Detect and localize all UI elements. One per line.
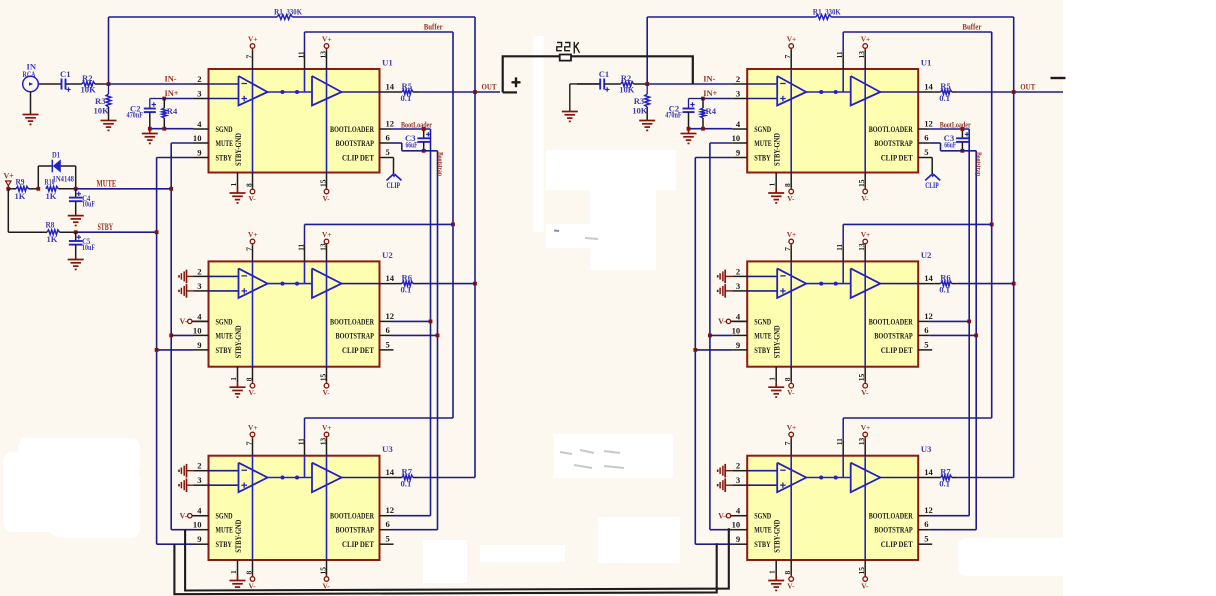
svg-text:15: 15 xyxy=(857,567,866,575)
V+ pin 13 of U1 xyxy=(319,35,332,173)
svg-text:13: 13 xyxy=(857,243,866,251)
net Buffer wire (left) xyxy=(305,22,455,419)
svg-text:0.1: 0.1 xyxy=(401,285,412,295)
svg-text:10K: 10K xyxy=(94,106,110,116)
V+ rail pin 7 of U1 xyxy=(245,35,258,173)
net Bootstrap wire (left) xyxy=(391,143,445,530)
svg-text:U1: U1 xyxy=(382,58,393,68)
svg-text:6: 6 xyxy=(386,133,391,143)
svg-text:10: 10 xyxy=(193,520,202,530)
svg-text:BOOTSTRAP: BOOTSTRAP xyxy=(874,138,913,148)
pin names of U1 xyxy=(216,124,375,166)
svg-text:12: 12 xyxy=(924,119,933,129)
svg-text:IN+: IN+ xyxy=(703,89,717,98)
pin stubs of U3 xyxy=(193,461,396,545)
svg-text:SGND: SGND xyxy=(216,316,233,326)
wire SGND to pin 4 (right) xyxy=(687,127,733,131)
svg-text:1: 1 xyxy=(768,377,777,381)
svg-text:V-: V- xyxy=(249,581,257,590)
svg-text:0.1: 0.1 xyxy=(939,285,950,295)
V- pin 8 of U3 xyxy=(783,560,795,590)
pin stubs of U3 xyxy=(732,461,935,545)
pin 11 entry of U1 xyxy=(835,32,844,92)
svg-text:V-: V- xyxy=(249,388,257,397)
svg-text:MUTE: MUTE xyxy=(754,525,772,535)
amplifier A of U1 xyxy=(209,76,268,106)
V- pin 15 of U3 xyxy=(319,560,331,590)
svg-text:15: 15 xyxy=(319,179,328,187)
amplifier B (buffer) of U1 xyxy=(312,76,342,106)
svg-text:V+: V+ xyxy=(322,35,332,44)
svg-text:BOOTSTRAP: BOOTSTRAP xyxy=(336,525,375,535)
svg-text:14: 14 xyxy=(386,82,395,92)
pin names of U3 xyxy=(754,511,913,553)
svg-text:0.1: 0.1 xyxy=(401,93,412,103)
svg-text:STBY: STBY xyxy=(754,539,771,549)
svg-text:CLIP DET: CLIP DET xyxy=(342,345,374,355)
svg-text:D1: D1 xyxy=(52,150,60,160)
input ac-ground symbol pin3 (left) xyxy=(179,478,194,492)
svg-text:Buffer: Buffer xyxy=(962,22,981,32)
svg-text:SGND: SGND xyxy=(754,511,771,521)
svg-text:CLIP DET: CLIP DET xyxy=(881,153,913,163)
V+ pin 13 of U2 xyxy=(857,230,870,367)
ground below R3 (left) xyxy=(101,121,117,131)
svg-text:V+: V+ xyxy=(322,423,332,432)
V+ rail pin 7 of U1 xyxy=(783,35,796,173)
svg-text:R6: R6 xyxy=(940,273,951,283)
svg-text:9: 9 xyxy=(736,340,740,350)
wire between amplifiers of U2 xyxy=(806,282,851,286)
svg-text:6: 6 xyxy=(386,325,391,335)
wire IN- to pin 2 (right) xyxy=(647,75,732,85)
wire IN+ to pin 3 (right) xyxy=(701,89,732,100)
svg-text:CLIP DET: CLIP DET xyxy=(881,539,913,549)
svg-text:8: 8 xyxy=(783,571,792,575)
svg-text:STBY: STBY xyxy=(216,539,233,549)
V- pin 15 of U1 xyxy=(857,173,869,203)
svg-text:6: 6 xyxy=(924,519,929,529)
svg-text:6: 6 xyxy=(924,133,929,143)
V+ pin 13 of U3 xyxy=(319,423,332,560)
wire U2 pin6 to Bootstrap (right) xyxy=(930,334,977,336)
svg-text:10uF: 10uF xyxy=(82,242,95,252)
wire U3 pin11 to Buffer (right) xyxy=(843,417,992,419)
input ac-ground symbol pin3 (right) xyxy=(718,478,733,492)
net MUTE wire xyxy=(74,179,173,191)
capacitor C3 66uF (right) xyxy=(944,127,970,153)
svg-text:V+: V+ xyxy=(787,35,797,44)
svg-text:12: 12 xyxy=(386,505,395,515)
svg-text:SGND: SGND xyxy=(216,124,233,134)
svg-text:CLIP: CLIP xyxy=(387,180,401,190)
input ac-ground symbol pin3 (right) xyxy=(718,284,733,298)
V+ rail pin 7 of U2 xyxy=(245,230,258,367)
V+ rail pin 7 of U3 xyxy=(783,423,796,560)
svg-text:R1: R1 xyxy=(813,7,822,17)
pin 1 ground of U1 xyxy=(768,173,785,203)
svg-text:8: 8 xyxy=(245,183,254,187)
resistor R6 0.1 (right) xyxy=(935,273,1014,295)
output wire inside U3 xyxy=(880,477,918,479)
svg-text:5: 5 xyxy=(386,147,390,157)
amplifier A of U3 xyxy=(209,463,268,493)
op-amp U1 xyxy=(209,58,393,173)
svg-text:66uF: 66uF xyxy=(944,140,956,150)
hand-drawn minus sign at right OUT xyxy=(1051,77,1066,79)
V- terminal pin 4 (left) xyxy=(179,317,208,326)
pin 11 entry of U2 xyxy=(297,224,306,283)
svg-text:1N4148: 1N4148 xyxy=(53,174,75,184)
amplifier A of U3 xyxy=(747,463,806,493)
svg-text:1: 1 xyxy=(768,570,777,574)
capacitor C4 10uF xyxy=(69,189,95,216)
resistor R5 0.1 (left) xyxy=(396,81,419,103)
net BootLoader wire (right) xyxy=(930,120,971,515)
net BootLoader wire (left) xyxy=(391,120,432,515)
amplifier B (buffer) of U1 xyxy=(851,76,881,106)
svg-text:4: 4 xyxy=(197,506,202,516)
amplifier A of U2 xyxy=(747,268,806,298)
V- pin 15 of U2 xyxy=(319,367,331,397)
op-amp U1 xyxy=(747,58,931,173)
svg-text:CLIP DET: CLIP DET xyxy=(881,345,913,355)
net STBY wire xyxy=(74,222,159,234)
svg-text:STBY: STBY xyxy=(754,153,771,163)
hand-drawn label 22K xyxy=(557,42,580,54)
svg-text:13: 13 xyxy=(857,437,866,445)
pin stubs of U1 xyxy=(193,74,396,158)
op-amp U2 xyxy=(209,250,394,367)
resistor R7 0.1 (left) xyxy=(396,467,475,489)
svg-text:R9: R9 xyxy=(16,177,25,187)
svg-text:10K: 10K xyxy=(632,106,648,116)
svg-text:66uF: 66uF xyxy=(406,140,418,150)
svg-text:330K: 330K xyxy=(825,7,841,17)
svg-text:8: 8 xyxy=(245,377,254,381)
pin 1 ground of U2 xyxy=(768,367,785,397)
svg-text:11: 11 xyxy=(835,438,844,445)
svg-text:V-: V- xyxy=(249,194,257,203)
svg-text:11: 11 xyxy=(835,244,844,251)
V+ rail pin 7 of U3 xyxy=(245,423,258,560)
net MUTE bus (right) xyxy=(708,143,732,530)
svg-text:470nF: 470nF xyxy=(127,110,144,120)
svg-text:BOOTSTRAP: BOOTSTRAP xyxy=(336,138,375,148)
svg-text:BOOTSTRAP: BOOTSTRAP xyxy=(874,330,913,340)
svg-text:SGND: SGND xyxy=(754,316,771,326)
svg-text:V-: V- xyxy=(179,317,187,326)
pin 11 entry of U2 xyxy=(835,224,844,283)
pin stubs of U1 xyxy=(732,74,935,158)
svg-text:10K: 10K xyxy=(81,84,97,94)
svg-text:4: 4 xyxy=(197,119,202,129)
wire R1 left leg (right) xyxy=(646,17,648,84)
hand-drawn STBY link wire bottom xyxy=(174,543,716,594)
svg-text:330K: 330K xyxy=(287,7,303,17)
resistor R2 10K (right) xyxy=(604,73,647,94)
svg-text:15: 15 xyxy=(319,373,328,381)
wire between amplifiers of U2 xyxy=(268,282,313,286)
svg-text:BOOTLOADER: BOOTLOADER xyxy=(869,124,913,134)
capacitor C3 66uF (left) xyxy=(405,127,431,153)
svg-text:R2: R2 xyxy=(82,73,93,83)
wire OUT feedback vertical (right) xyxy=(1012,92,1016,478)
svg-text:13: 13 xyxy=(857,51,866,59)
white patch bottom middle xyxy=(423,540,565,583)
svg-text:7: 7 xyxy=(783,55,792,59)
svg-text:13: 13 xyxy=(319,437,328,445)
svg-text:10K: 10K xyxy=(619,84,635,94)
svg-text:5: 5 xyxy=(386,339,390,349)
pin 11 entry of U1 xyxy=(297,32,306,92)
svg-text:14: 14 xyxy=(386,467,395,477)
svg-text:U3: U3 xyxy=(382,444,393,454)
svg-text:V-: V- xyxy=(323,388,331,397)
capacitor C2 470nF (left) xyxy=(127,99,165,129)
pin names of U1 xyxy=(754,124,913,166)
white strip middle top xyxy=(534,36,544,232)
ground below C5 xyxy=(68,260,84,270)
svg-text:2: 2 xyxy=(197,266,201,276)
svg-text:V-: V- xyxy=(179,512,187,521)
svg-text:CLIP DET: CLIP DET xyxy=(342,153,374,163)
V- pin 8 of U2 xyxy=(783,367,795,397)
svg-text:V+: V+ xyxy=(787,423,797,432)
input ac-ground symbol pin2 (left) xyxy=(179,464,194,478)
svg-text:U2: U2 xyxy=(921,250,932,260)
V+ pin 13 of U2 xyxy=(319,230,332,367)
wire U3 pin12 to BootLoader (left) xyxy=(391,515,431,517)
V- pin 8 of U1 xyxy=(245,173,257,203)
wire U3 pin11 to Buffer (left) xyxy=(305,417,454,419)
svg-text:12: 12 xyxy=(924,505,933,515)
hand-drawn 22K coupling resistor xyxy=(503,55,693,93)
op-amp U3 xyxy=(747,444,932,560)
resistor R8 1K xyxy=(46,220,76,244)
white margin right xyxy=(1063,0,1216,596)
svg-text:8: 8 xyxy=(245,571,254,575)
white patch middle upper xyxy=(546,150,676,270)
svg-text:9: 9 xyxy=(736,534,740,544)
svg-text:IN-: IN- xyxy=(165,75,177,84)
net MUTE bus (left) xyxy=(169,143,193,530)
svg-text:10: 10 xyxy=(732,520,741,530)
svg-text:V+: V+ xyxy=(322,230,332,239)
svg-text:14: 14 xyxy=(924,467,933,477)
svg-text:OUT: OUT xyxy=(482,82,497,92)
svg-text:V-: V- xyxy=(787,581,795,590)
wire U3 pin12 to BootLoader (right) xyxy=(930,515,970,517)
svg-text:10: 10 xyxy=(732,325,741,335)
svg-text:R3: R3 xyxy=(634,96,645,106)
svg-text:10uF: 10uF xyxy=(82,199,95,209)
amplifier B (buffer) of U3 xyxy=(851,463,881,493)
svg-text:12: 12 xyxy=(386,119,395,129)
svg-text:MUTE: MUTE xyxy=(754,138,772,148)
resistor R5 0.1 (right) xyxy=(935,81,958,103)
output wire inside U1 xyxy=(342,91,380,93)
wire OUT (left) xyxy=(419,82,500,94)
svg-text:CLIP: CLIP xyxy=(925,180,939,190)
svg-text:3: 3 xyxy=(197,281,201,291)
V- pin 15 of U3 xyxy=(857,560,869,590)
svg-text:0.1: 0.1 xyxy=(401,479,412,489)
svg-text:10: 10 xyxy=(193,325,202,335)
svg-text:R2: R2 xyxy=(621,73,632,83)
svg-text:BOOTSTRAP: BOOTSTRAP xyxy=(874,525,913,535)
resistor R4 (left) xyxy=(162,99,178,129)
svg-text:5: 5 xyxy=(924,147,928,157)
input ac-ground symbol pin2 (left) xyxy=(179,270,194,284)
svg-text:BootLoader: BootLoader xyxy=(940,120,971,129)
V+ pin 13 of U3 xyxy=(857,423,870,560)
wire between amplifiers of U1 xyxy=(268,90,313,94)
diode D1 1N4148 xyxy=(36,150,75,191)
wire U2 pin12 to BootLoader (left) xyxy=(391,320,431,322)
svg-text:14: 14 xyxy=(924,82,933,92)
svg-text:V-: V- xyxy=(861,388,869,397)
svg-text:MUTE: MUTE xyxy=(216,138,234,148)
net STBY bus (left) xyxy=(155,158,194,545)
resistor R6 0.1 (left) xyxy=(396,273,475,295)
svg-text:6: 6 xyxy=(386,519,391,529)
svg-text:12: 12 xyxy=(386,311,395,321)
wire U2 pin11 to Buffer (right) xyxy=(843,223,992,225)
svg-text:MUTE: MUTE xyxy=(216,330,234,340)
output wire inside U2 xyxy=(342,283,380,285)
svg-text:6: 6 xyxy=(924,325,929,335)
svg-text:V-: V- xyxy=(861,194,869,203)
net STBY bus (right) xyxy=(693,158,732,545)
svg-text:3: 3 xyxy=(736,475,740,485)
pin names of U2 xyxy=(754,316,913,358)
capacitor C2 470nF (right) xyxy=(665,99,703,129)
svg-text:470nF: 470nF xyxy=(665,110,682,120)
white patch middle center xyxy=(554,434,1068,576)
svg-text:7: 7 xyxy=(245,247,254,251)
white patch bottom-left xyxy=(3,438,140,538)
svg-text:R5: R5 xyxy=(402,81,413,91)
svg-text:7: 7 xyxy=(245,441,254,445)
svg-text:BOOTLOADER: BOOTLOADER xyxy=(869,316,913,326)
wire U2 pin12 to BootLoader (right) xyxy=(930,320,970,322)
wire R1 left leg (left) xyxy=(108,17,110,84)
svg-text:7: 7 xyxy=(245,55,254,59)
resistor R9 1K xyxy=(6,177,38,201)
svg-text:11: 11 xyxy=(835,51,844,58)
hand-drawn MUTE link wire bottom xyxy=(185,528,729,590)
V+ pin 13 of U1 xyxy=(857,35,870,173)
svg-text:STBY: STBY xyxy=(98,222,114,232)
svg-text:5: 5 xyxy=(386,534,390,544)
svg-text:MUTE: MUTE xyxy=(97,179,117,189)
amplifier B (buffer) of U2 xyxy=(312,268,342,298)
svg-text:BOOTLOADER: BOOTLOADER xyxy=(330,511,374,521)
svg-text:7: 7 xyxy=(783,247,792,251)
input ac-ground symbol pin2 (right) xyxy=(718,270,733,284)
V- terminal pin 4 (right) xyxy=(718,317,747,326)
svg-text:1K: 1K xyxy=(15,191,26,201)
wire SGND to pin 4 (left) xyxy=(148,127,194,131)
ground below C4 xyxy=(68,216,84,226)
input ac-ground symbol pin3 (left) xyxy=(179,284,194,298)
svg-text:2: 2 xyxy=(736,266,740,276)
output wire inside U2 xyxy=(880,283,918,285)
ground below C2 (left) xyxy=(142,129,158,144)
svg-text:R10: R10 xyxy=(45,177,55,187)
svg-text:STBY: STBY xyxy=(754,345,771,355)
power V+ terminal xyxy=(4,172,15,189)
svg-text:9: 9 xyxy=(197,340,201,350)
net Bootstrap wire (right) xyxy=(930,143,984,530)
svg-text:STBY: STBY xyxy=(216,153,233,163)
svg-text:SGND: SGND xyxy=(754,124,771,134)
amplifier A of U2 xyxy=(209,268,268,298)
svg-text:R8: R8 xyxy=(46,220,56,230)
svg-text:2: 2 xyxy=(736,461,740,471)
svg-text:R4: R4 xyxy=(706,106,717,116)
svg-text:V-: V- xyxy=(787,194,795,203)
svg-text:0.1: 0.1 xyxy=(939,93,950,103)
svg-text:Bootstrap: Bootstrap xyxy=(975,152,984,176)
V- pin 8 of U3 xyxy=(245,560,257,590)
svg-text:BootLoader: BootLoader xyxy=(401,120,432,129)
svg-text:15: 15 xyxy=(857,373,866,381)
svg-text:V+: V+ xyxy=(4,172,15,181)
svg-text:V-: V- xyxy=(718,317,726,326)
pin 1 ground of U3 xyxy=(229,560,246,590)
svg-text:7: 7 xyxy=(783,441,792,445)
svg-text:BOOTLOADER: BOOTLOADER xyxy=(330,316,374,326)
svg-text:Buffer: Buffer xyxy=(424,22,443,32)
svg-text:V-: V- xyxy=(323,194,331,203)
resistor R10 1K xyxy=(45,177,76,201)
pin names of U3 xyxy=(216,511,375,553)
pin 1 ground of U3 xyxy=(768,560,785,590)
svg-text:1K: 1K xyxy=(47,234,58,244)
pin names of U2 xyxy=(216,316,375,358)
svg-text:8: 8 xyxy=(783,183,792,187)
svg-text:11: 11 xyxy=(297,244,306,251)
svg-text:CLIP DET: CLIP DET xyxy=(342,539,374,549)
amplifier B (buffer) of U3 xyxy=(312,463,342,493)
svg-text:12: 12 xyxy=(924,311,933,321)
hand-drawn plus sign at left OUT xyxy=(512,77,521,87)
svg-text:STBY-GND: STBY-GND xyxy=(234,325,243,358)
resistor R1 330K (right) xyxy=(647,7,1014,20)
wire OUT (right) xyxy=(958,82,1078,94)
wire IN- to pin 2 (left) xyxy=(109,75,194,85)
node IN- junction (left) xyxy=(107,82,111,86)
V- terminal pin 4 (right) xyxy=(718,512,747,521)
svg-text:11: 11 xyxy=(297,51,306,58)
svg-text:3: 3 xyxy=(736,89,740,99)
svg-text:C1: C1 xyxy=(60,69,71,79)
wire OUT feedback vertical (left) xyxy=(473,92,477,478)
svg-text:R7: R7 xyxy=(940,467,951,477)
ground below R3 (right) xyxy=(639,121,655,131)
capacitor C1 (left) xyxy=(38,69,70,92)
svg-text:V+: V+ xyxy=(861,35,871,44)
svg-text:STBY-GND: STBY-GND xyxy=(234,133,243,166)
wire R1 right leg to OUT (right) xyxy=(1013,17,1015,92)
resistor R4 (right) xyxy=(701,99,717,129)
svg-text:V+: V+ xyxy=(248,230,258,239)
RCA input jack IN xyxy=(23,62,39,92)
pin 11 entry of U3 xyxy=(297,418,306,478)
wire U3 pin6 to Bootstrap (right) xyxy=(930,529,977,531)
